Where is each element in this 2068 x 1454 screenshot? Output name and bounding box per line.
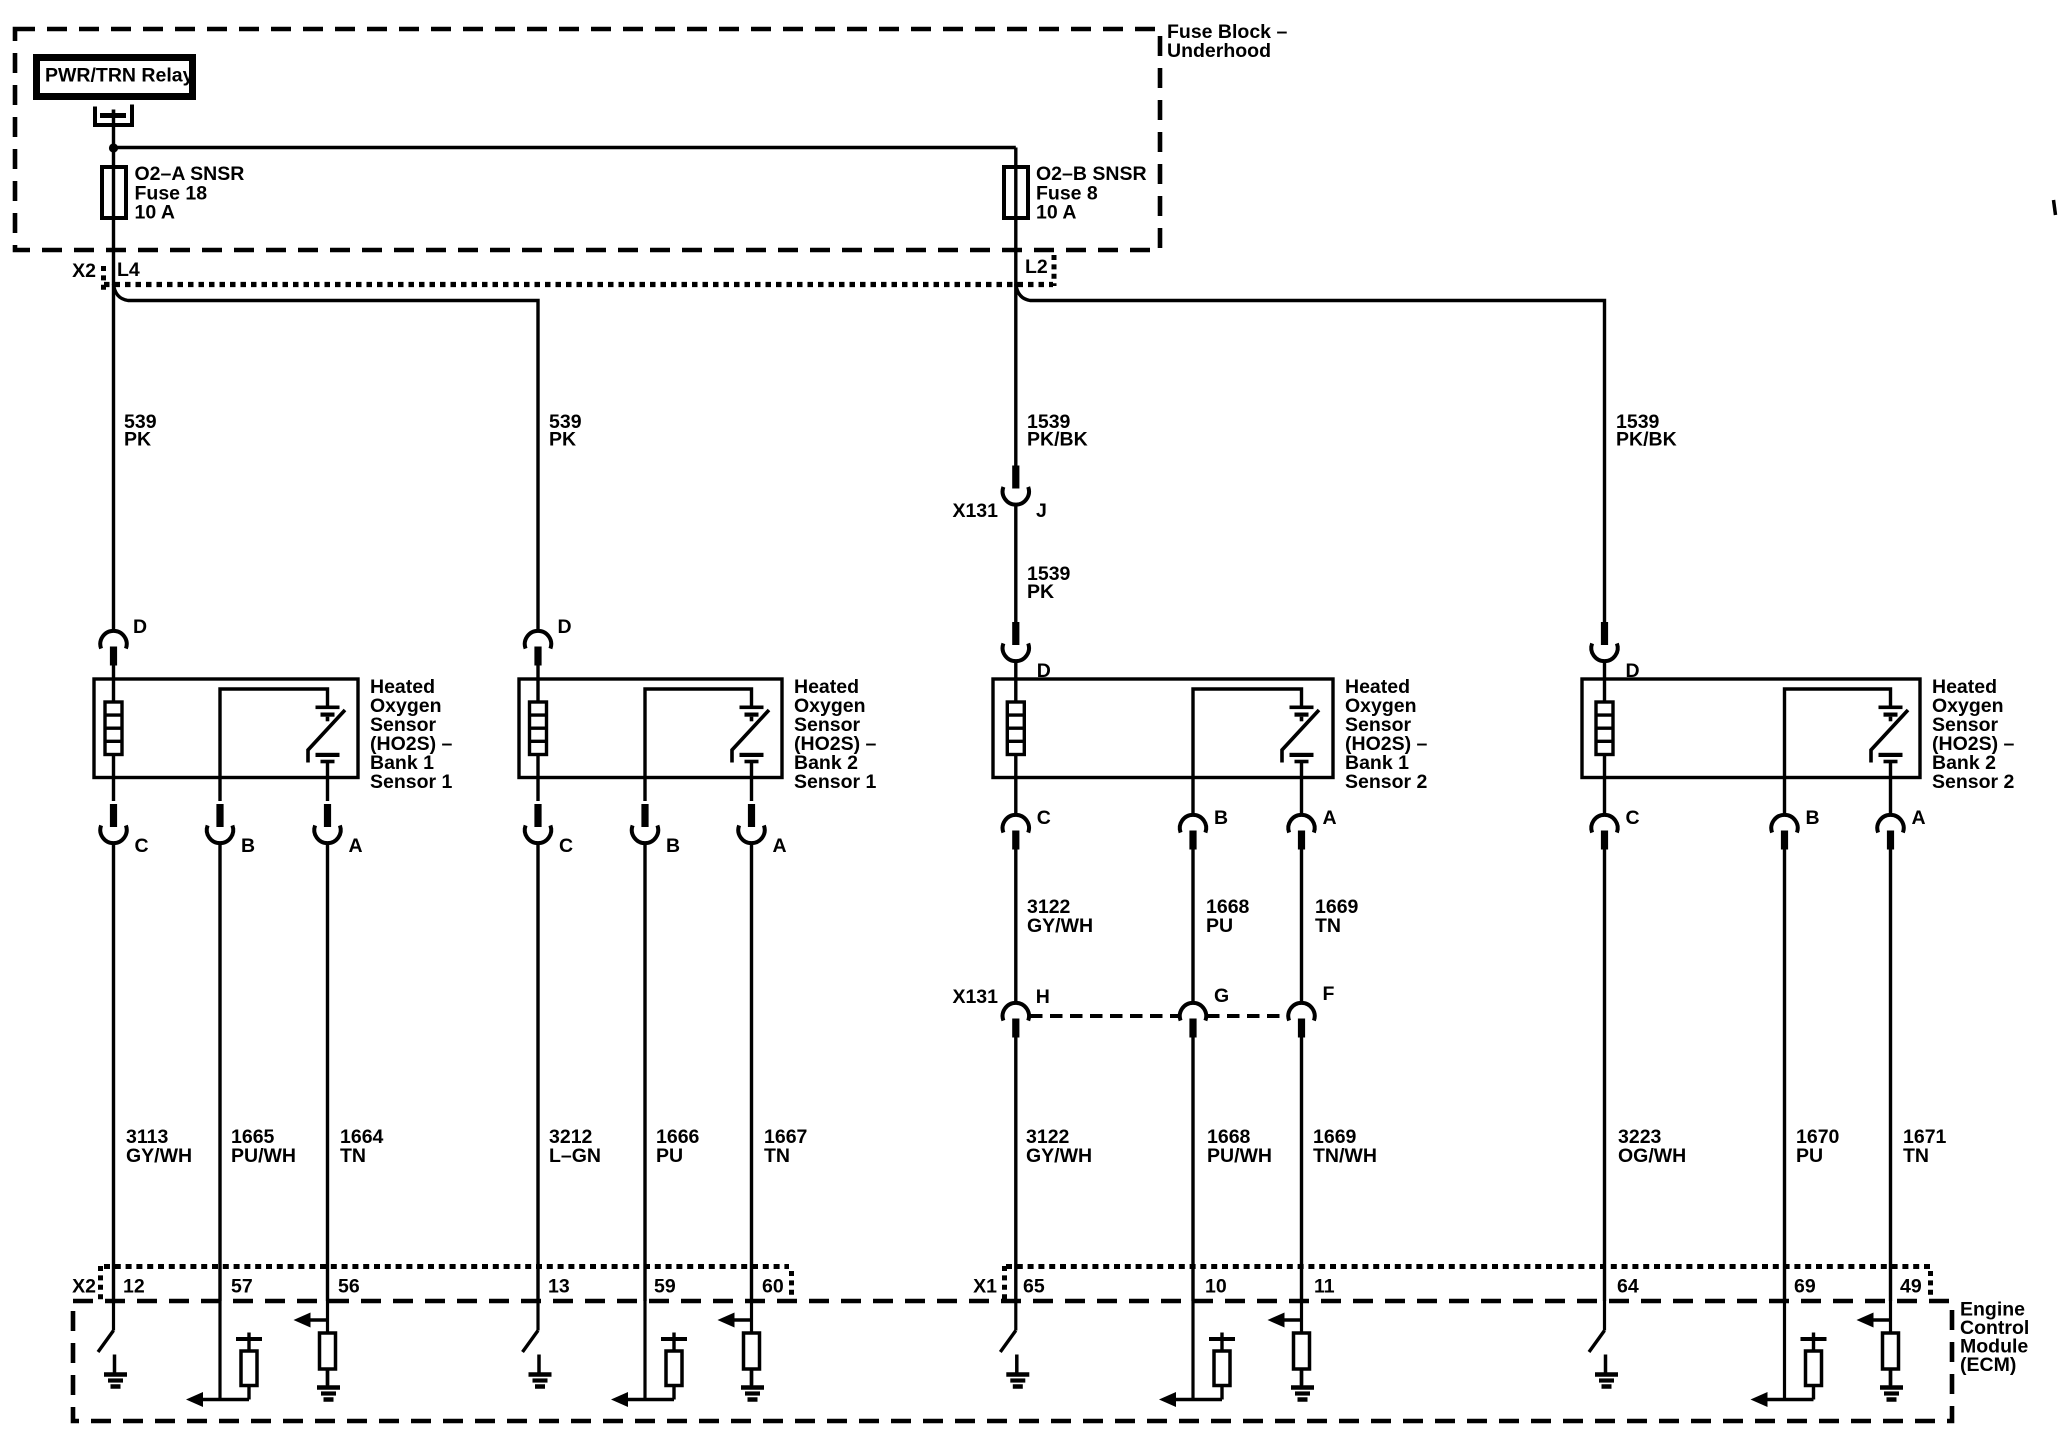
svg-text:HeatedOxygenSensor(HO2S) –Bank: HeatedOxygenSensor(HO2S) –Bank 1Sensor 1 <box>370 676 453 793</box>
connector X2 tick at L4 row <box>101 266 106 290</box>
svg-text:1667TN: 1667TN <box>764 1126 807 1167</box>
svg-text:1665PU/WH: 1665PU/WH <box>231 1126 296 1167</box>
svg-text:60: 60 <box>762 1276 784 1298</box>
wire 1669 TN/WH lower <box>1300 1038 1303 1302</box>
relay contact symbol <box>95 105 132 126</box>
wire 1668 PU upper <box>1191 850 1194 1002</box>
connector pin D HO2S B2S1 <box>525 631 551 666</box>
wire cell to pin A HO2S B2S2 <box>1889 763 1892 778</box>
svg-text:1669TN/WH: 1669TN/WH <box>1313 1126 1377 1167</box>
svg-text:A: A <box>773 835 787 857</box>
svg-text:HeatedOxygenSensor(HO2S) –Bank: HeatedOxygenSensor(HO2S) –Bank 2Sensor 1 <box>794 676 877 793</box>
svg-text:56: 56 <box>338 1276 360 1298</box>
svg-text:3122GY/WH: 3122GY/WH <box>1026 1126 1092 1167</box>
connector pin A HO2S B1S2 <box>1288 815 1314 850</box>
HO2S box HO2S B2S2 <box>1582 679 1920 778</box>
ECM dashed boundary <box>73 1301 1952 1421</box>
HO2S box HO2S B1S2 <box>993 679 1333 778</box>
wire 1665 PU/WH <box>218 843 221 1301</box>
svg-text:F: F <box>1323 983 1335 1005</box>
svg-text:C: C <box>1037 807 1051 829</box>
svg-text:C: C <box>559 835 573 857</box>
connector pin A HO2S B1S1 <box>314 804 340 843</box>
ECM internal arrow resistor ground pin 49 <box>1857 1301 1904 1400</box>
connector X131 pin F <box>1288 1003 1314 1038</box>
svg-text:3212L–GN: 3212L–GN <box>549 1126 601 1167</box>
svg-text:D: D <box>133 616 147 638</box>
HO2S box HO2S B1S1 <box>94 679 358 778</box>
ECM internal switch to ground pin 65 <box>1000 1301 1029 1387</box>
ECM connector X2 dotted terminal line <box>104 1264 789 1269</box>
sensor cell HO2S B2S1 <box>732 706 769 764</box>
X131 connector dashed tie H-G <box>1030 1014 1180 1018</box>
wire pin D into HO2S B2S2 <box>1603 661 1606 702</box>
connector pin D HO2S B2S2 <box>1591 622 1617 661</box>
connector pin D HO2S B1S2 <box>1003 622 1029 661</box>
fuse block connector terminal dotted line <box>104 282 1053 287</box>
svg-text:Fuse Block –Underhood: Fuse Block –Underhood <box>1167 21 1287 62</box>
ECM internal switch to ground pin 64 <box>1589 1301 1618 1387</box>
svg-text:539PK: 539PK <box>124 411 157 451</box>
svg-text:X2: X2 <box>72 260 96 282</box>
svg-text:3113GY/WH: 3113GY/WH <box>126 1126 192 1167</box>
connector pin A HO2S B2S1 <box>738 804 764 843</box>
connector pin D HO2S B1S1 <box>100 631 126 666</box>
wire pin C below box HO2S B2S2 <box>1603 778 1606 814</box>
wire pin A below box HO2S B1S1 <box>326 778 329 802</box>
wire pin B below box HO2S B2S2 <box>1783 778 1786 814</box>
wire cell to pin A HO2S B1S1 <box>326 763 329 778</box>
svg-text:11: 11 <box>1314 1276 1335 1298</box>
svg-text:1539PK/BK: 1539PK/BK <box>1027 411 1088 451</box>
connector X2 right tick <box>789 1271 794 1298</box>
wire 1664 TN <box>326 843 329 1301</box>
svg-text:49: 49 <box>1900 1276 1922 1298</box>
svg-text:X1: X1 <box>973 1276 997 1298</box>
wire 1539 PK/BK vertical bank1 sensor2 <box>1014 218 1017 466</box>
ECM internal resistor and arrow pin 69 <box>1751 1301 1827 1407</box>
svg-text:B: B <box>666 835 680 857</box>
svg-text:1668PU: 1668PU <box>1206 896 1250 937</box>
svg-text:HeatedOxygenSensor(HO2S) –Bank: HeatedOxygenSensor(HO2S) –Bank 1Sensor 2 <box>1345 676 1428 793</box>
svg-text:12: 12 <box>123 1276 145 1298</box>
ECM connector X1 dotted terminal line <box>1006 1264 1930 1269</box>
svg-text:X131: X131 <box>952 500 998 522</box>
svg-text:B: B <box>1806 807 1820 829</box>
wire pin C below box HO2S B1S1 <box>112 778 115 802</box>
svg-text:O2–B SNSRFuse 810 A: O2–B SNSRFuse 810 A <box>1036 163 1147 224</box>
svg-text:H: H <box>1036 986 1050 1008</box>
connector pin B HO2S B1S2 <box>1180 815 1206 850</box>
svg-text:D: D <box>558 616 572 638</box>
svg-text:EngineControlModule(ECM): EngineControlModule(ECM) <box>1960 1299 2029 1377</box>
svg-text:1539PK/BK: 1539PK/BK <box>1616 411 1677 451</box>
sensor cell HO2S B1S1 <box>308 706 345 764</box>
connector pin B HO2S B2S2 <box>1771 815 1797 850</box>
ECM internal resistor and arrow pin 10 <box>1159 1301 1235 1407</box>
svg-text:HeatedOxygenSensor(HO2S) –Bank: HeatedOxygenSensor(HO2S) –Bank 2Sensor 2 <box>1932 676 2015 793</box>
connector X1 right tick <box>1928 1271 1933 1298</box>
wire pin B below box HO2S B1S2 <box>1191 778 1194 814</box>
svg-text:1670PU: 1670PU <box>1796 1126 1840 1167</box>
connector pin C HO2S B2S2 <box>1591 815 1617 850</box>
connector pin B HO2S B2S1 <box>632 804 658 843</box>
connector L2 tick <box>1052 255 1057 286</box>
wire pin D into HO2S B2S1 <box>536 663 539 702</box>
fuse F18 O2-A SNSR 10A <box>112 167 115 218</box>
wire pin D into HO2S B1S1 <box>112 663 115 702</box>
svg-text:69: 69 <box>1794 1276 1816 1298</box>
wire heater to pin C HO2S B2S2 <box>1603 755 1606 778</box>
wire 539 PK vertical bank1 sensor1 <box>112 218 115 629</box>
svg-text:J: J <box>1036 500 1047 522</box>
wire pin A below box HO2S B1S2 <box>1300 778 1303 814</box>
wire 3113 GY/WH <box>112 843 115 1301</box>
ECM internal arrow resistor ground pin 60 <box>718 1301 765 1400</box>
sensor cell HO2S B2S2 <box>1871 706 1908 764</box>
ECM internal switch to ground pin 13 <box>523 1301 552 1387</box>
svg-text:B: B <box>241 835 255 857</box>
X131 connector dashed tie G-F <box>1207 1014 1288 1018</box>
svg-text:1666PU: 1666PU <box>656 1126 700 1167</box>
wire 3122 GY/WH upper <box>1014 850 1017 1002</box>
ECM internal arrow resistor ground pin 56 <box>294 1301 341 1400</box>
svg-text:X2: X2 <box>72 1276 96 1298</box>
svg-text:O2–A SNSRFuse 1810 A: O2–A SNSRFuse 1810 A <box>135 163 245 224</box>
wire pin D into HO2S B1S2 <box>1014 661 1017 702</box>
svg-text:1539PK: 1539PK <box>1027 563 1071 603</box>
svg-text:1664TN: 1664TN <box>340 1126 384 1167</box>
wire relay output to junction <box>112 116 115 168</box>
connector pin B HO2S B1S1 <box>207 804 233 843</box>
svg-text:59: 59 <box>654 1276 676 1298</box>
wire 3122 GY/WH lower <box>1014 1038 1017 1302</box>
ECM internal resistor and arrow pin 57 <box>186 1301 262 1407</box>
svg-text:L2: L2 <box>1025 256 1048 278</box>
wire heater to pin C HO2S B1S1 <box>112 755 115 778</box>
connector pin C HO2S B1S2 <box>1003 815 1029 850</box>
connector X131 pin H <box>1003 1003 1029 1038</box>
heater element HO2S B1S2 <box>1007 702 1024 755</box>
svg-text:L4: L4 <box>117 259 140 281</box>
wire 1666 PU <box>643 843 646 1301</box>
sensor cell HO2S B1S2 <box>1282 706 1319 764</box>
connector pin A HO2S B2S2 <box>1877 815 1903 850</box>
wire top feed horizontal to fuse 8 <box>114 146 1016 149</box>
wire pin A below box HO2S B2S1 <box>750 778 753 802</box>
svg-text:3223OG/WH: 3223OG/WH <box>1618 1126 1686 1167</box>
wire pin B below box HO2S B1S1 <box>218 778 221 802</box>
fuse F8 O2-B SNSR 10A <box>1014 167 1017 218</box>
wire 1539 PK below X131 <box>1014 505 1017 622</box>
svg-text:1669TN: 1669TN <box>1315 896 1359 937</box>
wire heater to pin C HO2S B2S1 <box>536 755 539 778</box>
wire pin C below box HO2S B1S2 <box>1014 778 1017 814</box>
svg-text:A: A <box>1323 807 1337 829</box>
wire 539 PK branch to bank2 sensor1 <box>114 284 539 629</box>
wire pin C below box HO2S B2S1 <box>536 778 539 802</box>
svg-text:64: 64 <box>1617 1276 1639 1298</box>
connector X131 pin J <box>1003 466 1029 505</box>
connector pin C HO2S B2S1 <box>525 804 551 843</box>
svg-text:13: 13 <box>548 1276 570 1298</box>
wire cell to pin A HO2S B1S2 <box>1300 763 1303 778</box>
heater element HO2S B2S2 <box>1596 702 1613 755</box>
internal wire pin B to cell HO2S B2S1 <box>645 689 752 778</box>
heater element HO2S B1S1 <box>105 702 122 755</box>
internal wire pin B to cell HO2S B1S2 <box>1193 689 1302 778</box>
wire pin B below box HO2S B2S1 <box>643 778 646 802</box>
ECM internal resistor and arrow pin 59 <box>611 1301 687 1407</box>
svg-text:X131: X131 <box>952 986 998 1008</box>
svg-text:C: C <box>1626 807 1640 829</box>
wire 3223 OG/WH <box>1603 850 1606 1302</box>
ECM internal switch to ground pin 12 <box>98 1301 127 1387</box>
connector pin C HO2S B1S1 <box>100 804 126 843</box>
wire 1667 TN <box>750 843 753 1301</box>
connector X131 pin G <box>1180 1003 1206 1038</box>
connector X1 left tick <box>1002 1266 1007 1300</box>
svg-text:B: B <box>1214 807 1228 829</box>
svg-text:1668PU/WH: 1668PU/WH <box>1207 1126 1272 1167</box>
svg-text:A: A <box>349 835 363 857</box>
internal wire pin B to cell HO2S B1S1 <box>220 689 328 778</box>
connector X2 left tick <box>98 1266 103 1300</box>
wire 1668 PU/WH lower <box>1191 1038 1194 1302</box>
node junction relay feed <box>109 143 118 152</box>
fuse block underhood dashed boundary <box>15 29 1160 250</box>
wire 3212 L-GN <box>536 843 539 1301</box>
svg-text:1671TN: 1671TN <box>1903 1126 1947 1167</box>
wire 1669 TN upper <box>1300 850 1303 1002</box>
heater element HO2S B2S1 <box>530 702 547 755</box>
svg-text:57: 57 <box>231 1276 253 1298</box>
svg-text:539PK: 539PK <box>549 411 582 451</box>
wire heater to pin C HO2S B1S2 <box>1014 755 1017 778</box>
wire pin A below box HO2S B2S2 <box>1889 778 1892 814</box>
scan artifact tick <box>2054 200 2056 215</box>
internal wire pin B to cell HO2S B2S2 <box>1785 689 1891 778</box>
relay K PWR/TRN Relay box <box>37 58 193 97</box>
wire 1539 PK/BK branch to bank2 sensor2 <box>1016 284 1605 622</box>
wire cell to pin A HO2S B2S1 <box>750 763 753 778</box>
HO2S box HO2S B2S1 <box>519 679 782 778</box>
svg-text:65: 65 <box>1023 1276 1045 1298</box>
svg-text:10: 10 <box>1205 1276 1227 1298</box>
svg-text:G: G <box>1214 985 1229 1007</box>
svg-text:PWR/TRN Relay: PWR/TRN Relay <box>45 65 194 87</box>
ECM internal arrow resistor ground pin 11 <box>1268 1301 1315 1400</box>
wire 1671 TN <box>1889 850 1892 1302</box>
wire 1670 PU <box>1783 850 1786 1302</box>
svg-text:C: C <box>135 835 149 857</box>
svg-text:3122GY/WH: 3122GY/WH <box>1027 896 1093 937</box>
svg-text:A: A <box>1912 807 1926 829</box>
